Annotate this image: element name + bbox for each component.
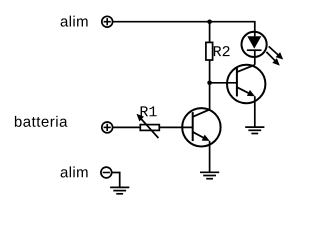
LED D1 xyxy=(242,32,267,57)
LED emission arrow 2 xyxy=(266,52,279,66)
ground alim- xyxy=(110,187,129,193)
LED emission arrow 1 xyxy=(269,46,284,59)
terminal P2 batteria xyxy=(102,122,113,133)
wire supply rail xyxy=(113,22,255,37)
wire Q2 emitter to ground xyxy=(254,96,256,127)
label alim (negative supply) xyxy=(61,166,88,177)
junction R2/Q1 collector/Q2 base xyxy=(207,81,212,86)
label batteria xyxy=(15,116,68,127)
trimmer R1 body xyxy=(140,125,159,131)
wire Q2 collector to LED xyxy=(254,57,256,65)
label R1 xyxy=(141,106,157,116)
wire R2 bottom lead xyxy=(209,60,211,83)
wire Q1 collector xyxy=(209,83,211,110)
wire Q2 base xyxy=(210,82,238,84)
label R2 xyxy=(214,46,230,56)
terminal P3 alim- xyxy=(101,167,112,178)
wire R2 top lead xyxy=(209,22,211,43)
wire alim- to ground xyxy=(112,173,120,188)
resistor R2 body xyxy=(206,42,213,60)
transistor Q1 (NPN, input stage) xyxy=(182,108,220,146)
terminal P1 alim+ xyxy=(102,16,113,27)
ground Q2 emitter xyxy=(245,127,264,133)
junction rail/R2 xyxy=(207,20,212,25)
wire batteria to R1 xyxy=(113,126,141,128)
trimmer R1 arrow xyxy=(137,114,159,138)
wire Q1 emitter to ground xyxy=(209,141,211,172)
ground Q1 emitter xyxy=(200,172,219,178)
label alim (positive supply) xyxy=(61,16,88,27)
wire R1 to Q1 base xyxy=(159,126,193,128)
transistor Q2 (NPN, drives LED) xyxy=(227,65,265,103)
